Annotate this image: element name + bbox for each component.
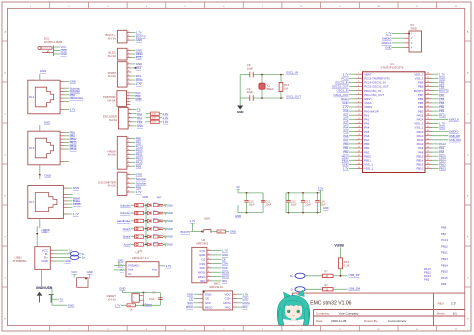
svg-text:1M: 1M — [284, 86, 289, 90]
svg-text:5: 5 — [128, 153, 129, 155]
svg-text:PB13: PB13 — [441, 257, 448, 261]
svg-text:GNDVUSB: GNDVUSB — [36, 286, 53, 290]
svg-text:1.7V: 1.7V — [73, 212, 79, 216]
svg-text:13: 13 — [358, 122, 360, 124]
svg-text:GND: GND — [87, 270, 93, 274]
svg-text:D: D — [467, 155, 469, 157]
svg-text:4: 4 — [128, 75, 129, 77]
svg-text:20pF: 20pF — [247, 66, 254, 70]
svg-text:GND: GND — [323, 206, 329, 210]
svg-text:Vout: Vout — [128, 268, 133, 272]
svg-text:1.0: 1.0 — [451, 301, 456, 305]
svg-text:2020-11-05: 2020-11-05 — [331, 319, 347, 323]
svg-text:42: 42 — [427, 97, 429, 99]
svg-text:VCC: VCC — [71, 270, 77, 274]
svg-text:46: 46 — [427, 81, 429, 83]
svg-text:45: 45 — [427, 85, 429, 87]
svg-text:1.7V: 1.7V — [343, 167, 349, 171]
svg-text:3V: 3V — [236, 185, 240, 189]
svg-text:R7: R7 — [325, 271, 329, 274]
svg-text:43: 43 — [427, 93, 429, 95]
svg-text:3: 3 — [128, 71, 129, 73]
svg-text:BOOT0: BOOT0 — [181, 230, 191, 234]
svg-text:GND/ADJ: GND/ADJ — [128, 263, 140, 267]
svg-text:4: 4 — [358, 85, 359, 87]
svg-text:D: D — [4, 155, 6, 157]
svg-text:PL7: PL7 — [29, 200, 34, 204]
svg-text:B: B — [467, 73, 469, 75]
svg-text:5: 5 — [358, 89, 359, 91]
svg-text:Subofan: Subofan — [120, 203, 131, 207]
svg-text:PB14: PB14 — [441, 263, 448, 267]
svg-text:1.7V: 1.7V — [136, 82, 142, 86]
svg-text:GND: GND — [61, 52, 67, 56]
svg-text:PB15: PB15 — [441, 270, 448, 274]
svg-text:SWCLK: SWCLK — [449, 117, 459, 121]
svg-text:1.7V: 1.7V — [386, 32, 392, 36]
svg-text:5: 5 — [184, 6, 186, 8]
svg-text:E: E — [467, 196, 469, 198]
svg-text:1K: 1K — [130, 309, 133, 312]
svg-text:4: 4 — [128, 149, 129, 151]
svg-text:PB6: PB6 — [136, 186, 142, 190]
svg-text:OSC1_IN: OSC1_IN — [286, 71, 298, 75]
svg-text:NRF24L01: NRF24L01 — [209, 285, 223, 289]
svg-text:15: 15 — [358, 130, 360, 132]
svg-text:10K: 10K — [152, 114, 156, 116]
svg-text:USB_DM: USB_DM — [449, 138, 461, 142]
svg-text:D+: D+ — [290, 274, 294, 278]
svg-text:PB12: PB12 — [416, 167, 423, 171]
svg-text:PA4: PA4 — [136, 66, 142, 70]
svg-text:9: 9 — [339, 6, 341, 8]
svg-text:1: 1 — [133, 296, 135, 298]
svg-text:GND: GND — [119, 287, 125, 291]
svg-text:11: 11 — [416, 6, 419, 8]
svg-text:4T0688001: 4T0688001 — [13, 259, 28, 263]
svg-text:IRQ: IRQ — [222, 279, 228, 283]
svg-text:G: G — [467, 278, 469, 280]
svg-text:VUSB: VUSB — [334, 243, 344, 247]
svg-text:MISO: MISO — [186, 305, 194, 309]
svg-text:Vin: Vin — [128, 272, 132, 276]
svg-text:GND: GND — [167, 243, 173, 247]
svg-text:1/1: 1/1 — [453, 312, 458, 316]
svg-text:USB_DP: USB_DP — [348, 273, 359, 277]
svg-text:36: 36 — [427, 122, 429, 124]
svg-text:GND: GND — [167, 235, 173, 239]
svg-text:1: 1 — [128, 173, 129, 175]
svg-text:Company:: Company: — [316, 312, 330, 316]
svg-text:37: 37 — [427, 118, 429, 120]
svg-text:Handbrake: Handbrake — [117, 219, 131, 223]
svg-text:Subofan: Subofan — [120, 211, 131, 215]
svg-text:PB9: PB9 — [136, 164, 142, 168]
svg-text:10K: 10K — [152, 118, 156, 120]
svg-text:C: C — [4, 114, 6, 116]
svg-text:35: 35 — [427, 126, 429, 128]
svg-text:Vout: Vout — [152, 268, 157, 272]
svg-text:U5: U5 — [138, 249, 142, 253]
svg-text:STM32F103C8T6: STM32F103C8T6 — [381, 66, 404, 70]
svg-text:6: 6 — [358, 93, 359, 95]
svg-text:XH-8A: XH-8A — [108, 153, 116, 157]
svg-text:28: 28 — [427, 155, 429, 157]
svg-text:GND: GND — [167, 203, 173, 207]
svg-text:2: 2 — [128, 67, 129, 69]
svg-text:GND: GND — [136, 173, 142, 177]
svg-text:8MHz: 8MHz — [267, 87, 275, 91]
svg-text:Clutch: Clutch — [73, 202, 81, 206]
svg-text:7: 7 — [358, 97, 359, 99]
svg-text:D-: D- — [82, 252, 85, 256]
svg-text:6: 6 — [128, 157, 129, 159]
svg-text:XH-3A: XH-3A — [108, 36, 116, 40]
svg-text:4: 4 — [208, 262, 209, 264]
svg-text:3: 3 — [411, 42, 413, 45]
svg-text:3: 3 — [128, 182, 129, 184]
svg-text:AMS1117-3.3: AMS1117-3.3 — [132, 256, 149, 260]
svg-text:DC005-2.0MM: DC005-2.0MM — [44, 40, 63, 44]
svg-text:Handbrake: Handbrake — [70, 96, 84, 100]
svg-text:IRQ: IRQ — [243, 305, 249, 309]
svg-text:D+: D+ — [82, 256, 86, 260]
svg-text:31: 31 — [427, 142, 429, 144]
svg-text:1: 1 — [128, 92, 129, 94]
svg-text:8: 8 — [358, 101, 359, 103]
svg-text:5: 5 — [128, 103, 129, 105]
svg-text:3: 3 — [208, 258, 209, 260]
svg-text:XH-3A: XH-3A — [108, 54, 116, 58]
svg-text:7: 7 — [128, 161, 129, 163]
svg-text:7: 7 — [208, 275, 209, 277]
svg-text:29: 29 — [427, 151, 429, 153]
svg-text:GND: GND — [237, 110, 245, 114]
svg-text:XH-2A: XH-2A — [108, 297, 116, 301]
svg-text:10uF: 10uF — [265, 203, 271, 207]
svg-text:7V: 7V — [60, 297, 64, 301]
svg-text:1.7V: 1.7V — [136, 190, 142, 194]
svg-text:14: 14 — [358, 126, 360, 128]
svg-text:PA15: PA15 — [439, 113, 446, 117]
svg-text:3.3V: 3.3V — [163, 120, 169, 124]
svg-text:22pF: 22pF — [247, 90, 254, 94]
svg-text:PB15: PB15 — [70, 147, 77, 151]
svg-text:18: 18 — [358, 142, 360, 144]
svg-text:B: B — [4, 73, 6, 75]
svg-text:44: 44 — [427, 89, 429, 91]
svg-text:4: 4 — [146, 6, 148, 8]
svg-text:30: 30 — [427, 147, 429, 149]
svg-text:PB6: PB6 — [441, 226, 447, 230]
svg-text:F: F — [467, 237, 469, 239]
svg-text:XH-5A: XH-5A — [109, 118, 117, 122]
svg-text:22: 22 — [358, 159, 360, 161]
svg-text:VCC: VCC — [41, 229, 47, 233]
svg-text:40: 40 — [427, 106, 429, 108]
svg-text:5: 5 — [208, 267, 209, 269]
svg-text:G: G — [4, 278, 6, 280]
svg-text:PA7: PA7 — [157, 197, 162, 200]
svg-text:A: A — [467, 31, 469, 34]
svg-text:EMC stm32 V1.06: EMC stm32 V1.06 — [310, 301, 351, 307]
svg-text:2: 2 — [411, 37, 413, 40]
svg-text:1.7V: 1.7V — [115, 303, 121, 307]
svg-text:1.7V: 1.7V — [70, 108, 76, 112]
svg-text:6: 6 — [223, 6, 225, 8]
svg-text:1: 1 — [128, 137, 129, 139]
svg-text:41: 41 — [427, 101, 429, 103]
svg-text:E: E — [4, 196, 6, 198]
svg-text:H: H — [467, 319, 469, 321]
svg-text:26: 26 — [427, 163, 429, 165]
svg-text:PB2: PB2 — [424, 277, 430, 281]
svg-text:SWDIO: SWDIO — [382, 36, 392, 40]
svg-text:2: 2 — [128, 94, 129, 96]
svg-text:6: 6 — [128, 83, 129, 85]
svg-text:10uF: 10uF — [249, 203, 255, 207]
svg-text:10uF: 10uF — [305, 203, 311, 207]
svg-text:11: 11 — [358, 114, 360, 116]
svg-text:10uF: 10uF — [320, 203, 326, 207]
svg-text:GND: GND — [135, 97, 141, 101]
svg-text:IRQ: IRQ — [200, 279, 206, 283]
svg-text:PB11: PB11 — [441, 251, 448, 255]
svg-text:PC13: PC13 — [441, 238, 448, 242]
svg-text:PL5: PL5 — [29, 146, 34, 150]
svg-text:38: 38 — [427, 114, 429, 116]
svg-text:OSC1_OUT: OSC1_OUT — [286, 94, 301, 98]
svg-text:4: 4 — [128, 100, 129, 102]
svg-text:MISO: MISO — [205, 305, 213, 309]
svg-text:3: 3 — [128, 39, 129, 41]
svg-text:10: 10 — [358, 110, 360, 112]
svg-text:8: 8 — [301, 6, 303, 8]
svg-text:GND: GND — [73, 186, 79, 190]
svg-text:1: 1 — [208, 249, 209, 251]
svg-text:Date:: Date: — [316, 319, 323, 323]
svg-text:R2: R2 — [325, 284, 329, 287]
svg-text:3: 3 — [107, 6, 109, 8]
svg-text:8: 8 — [208, 280, 209, 282]
svg-text:NRF2401: NRF2401 — [196, 242, 208, 246]
svg-text:4: 4 — [128, 186, 129, 188]
svg-text:48: 48 — [427, 73, 429, 75]
svg-text:GND: GND — [167, 219, 173, 223]
svg-text:1: 1 — [411, 33, 413, 36]
svg-text:25: 25 — [427, 167, 429, 169]
svg-text:XH-6A: XH-6A — [108, 74, 116, 78]
svg-text:1: 1 — [30, 6, 32, 8]
svg-text:8: 8 — [128, 165, 129, 167]
svg-text:2: 2 — [128, 141, 129, 143]
svg-text:GND: GND — [137, 124, 143, 128]
svg-text:27: 27 — [427, 159, 429, 161]
svg-text:21: 21 — [358, 155, 360, 157]
svg-text:PB10: PB10 — [441, 244, 448, 248]
svg-text:IRQ: IRQ — [225, 305, 231, 309]
svg-text:H: H — [4, 319, 6, 321]
svg-text:10K: 10K — [152, 122, 156, 124]
svg-text:34: 34 — [427, 130, 429, 132]
svg-text:F: F — [5, 237, 7, 239]
svg-text:XH-5A: XH-5A — [107, 98, 115, 102]
svg-text:33: 33 — [427, 134, 429, 136]
svg-text:10uF: 10uF — [291, 203, 297, 207]
svg-text:3: 3 — [128, 56, 129, 58]
svg-text:2: 2 — [208, 254, 209, 256]
svg-text:GND: GND — [41, 259, 47, 263]
svg-text:3: 3 — [128, 97, 129, 99]
svg-text:GND: GND — [40, 69, 46, 73]
svg-text:PC5: PC5 — [136, 56, 142, 60]
svg-text:1.7V: 1.7V — [190, 219, 196, 223]
svg-text:Your Company: Your Company — [339, 312, 360, 316]
svg-text:3: 3 — [358, 81, 359, 83]
svg-text:PB7: PB7 — [441, 232, 447, 236]
svg-text:1: 1 — [128, 49, 129, 51]
svg-text:PB12: PB12 — [439, 167, 446, 171]
svg-text:39: 39 — [427, 110, 429, 112]
svg-text:2: 2 — [128, 177, 129, 179]
svg-text:GND: GND — [230, 230, 236, 234]
svg-text:GND: GND — [143, 195, 149, 199]
svg-text:5: 5 — [128, 79, 129, 81]
svg-text:3.7V: 3.7V — [166, 264, 172, 268]
svg-text:GND: GND — [167, 227, 173, 231]
svg-text:9: 9 — [358, 106, 359, 108]
svg-text:GND: GND — [136, 38, 142, 42]
svg-text:3: 3 — [128, 145, 129, 147]
svg-text:5: 5 — [128, 191, 129, 193]
svg-text:A: A — [4, 31, 6, 34]
svg-text:2: 2 — [128, 53, 129, 55]
svg-text:USB_DM: USB_DM — [348, 287, 360, 291]
svg-text:GND: GND — [44, 121, 50, 125]
svg-text:SW2: SW2 — [204, 217, 211, 221]
svg-text:REV:: REV: — [438, 301, 445, 305]
svg-text:32: 32 — [427, 138, 429, 140]
svg-text:C: C — [467, 114, 469, 116]
svg-text:5: 5 — [129, 124, 130, 126]
svg-text:17: 17 — [358, 138, 360, 140]
svg-text:10uF: 10uF — [149, 298, 155, 301]
svg-text:Drawn By:: Drawn By: — [364, 319, 378, 323]
svg-text:4: 4 — [129, 120, 130, 122]
svg-text:SWCLK: SWCLK — [382, 41, 392, 45]
svg-text:1: 1 — [129, 108, 130, 110]
svg-text:D-: D- — [291, 287, 294, 291]
svg-text:47: 47 — [427, 77, 429, 79]
svg-text:GND: GND — [68, 303, 74, 307]
svg-text:GND: GND — [45, 174, 51, 178]
svg-text:2: 2 — [358, 77, 359, 79]
svg-text:20: 20 — [358, 151, 360, 153]
svg-text:2: 2 — [128, 35, 129, 37]
svg-text:19: 19 — [358, 147, 360, 149]
svg-text:Reset: Reset — [145, 303, 153, 307]
svg-text:1: 1 — [358, 73, 359, 75]
svg-text:GND: GND — [385, 46, 391, 50]
svg-text:4: 4 — [411, 47, 413, 50]
svg-text:Sheet:: Sheet: — [437, 312, 446, 316]
svg-text:16: 16 — [358, 134, 360, 136]
svg-text:12: 12 — [358, 118, 360, 120]
svg-text:1: 1 — [128, 63, 129, 65]
svg-text:3: 3 — [129, 116, 130, 118]
svg-text:Subofan: Subofan — [136, 177, 147, 181]
svg-text:23: 23 — [358, 163, 360, 165]
svg-text:GND: GND — [70, 80, 76, 84]
svg-text:Clutch: Clutch — [123, 227, 131, 231]
svg-text:1: 1 — [128, 31, 129, 33]
svg-text:3.3V: 3.3V — [318, 186, 324, 190]
svg-text:VDD_1: VDD_1 — [364, 167, 373, 171]
svg-text:SWD: SWD — [410, 26, 417, 30]
svg-text:10: 10 — [377, 6, 380, 8]
svg-text:GND: GND — [235, 214, 241, 218]
svg-text:PA15: PA15 — [441, 276, 448, 280]
svg-text:6: 6 — [208, 271, 209, 273]
svg-text:2: 2 — [129, 112, 130, 114]
svg-text:1.5K: 1.5K — [344, 264, 350, 268]
svg-text:GND: GND — [65, 259, 71, 263]
svg-text:GND: GND — [167, 211, 173, 215]
svg-text:XH-5A: XH-5A — [108, 184, 116, 188]
svg-text:24: 24 — [358, 167, 360, 169]
svg-text:Accel: Accel — [124, 243, 131, 247]
svg-text:komrockmctv: komrockmctv — [389, 319, 407, 323]
svg-text:PL4: PL4 — [29, 95, 34, 99]
svg-text:Brake: Brake — [123, 235, 131, 239]
svg-text:GND: GND — [439, 126, 445, 130]
svg-text:PB9: PB9 — [441, 282, 447, 286]
svg-text:7: 7 — [262, 6, 264, 8]
svg-text:Subofan: Subofan — [136, 181, 147, 185]
svg-text:2: 2 — [68, 6, 70, 8]
svg-text:12: 12 — [455, 6, 458, 8]
